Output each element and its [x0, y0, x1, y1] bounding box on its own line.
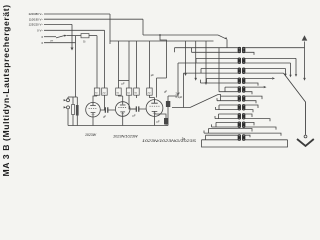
- wire: bottom return bus U bracket: [202, 140, 288, 147]
- resistor R1: [94, 36, 100, 96]
- wire: mains tap 6: [44, 42, 76, 44]
- wire: T3 lower-right lead: [242, 72, 283, 74]
- wire: T6 upper-right lead: [242, 96, 262, 99]
- tap plug arrow x185.5: [184, 41, 187, 76]
- wire: T11 lower-left lead: [202, 139, 241, 141]
- transformer T2 windings: [238, 58, 245, 64]
- wire: T7 lower-right lead: [242, 110, 253, 113]
- wire: T9 upper-right lead: [242, 122, 254, 125]
- wire: bus y35: [143, 34, 218, 36]
- wire: T3 upper-right lead: [242, 68, 285, 70]
- svg-text:u-r: u-r: [50, 39, 53, 43]
- wire: T1 upper-left lead: [175, 48, 241, 53]
- junction dot: [159, 34, 161, 36]
- svg-text:µF: µF: [151, 73, 154, 77]
- wire: tube2 anode: [122, 96, 124, 102]
- wire: row10 link through: [241, 129, 242, 134]
- wire: mains tap 125/220: [44, 23, 72, 25]
- terminal arrow up top right: [302, 35, 308, 40]
- svg-text:2Ω: 2Ω: [148, 92, 151, 94]
- svg-text:50: 50: [95, 92, 98, 94]
- wire: T5 lower-left lead: [219, 91, 241, 93]
- svg-text:µF: µF: [164, 90, 167, 94]
- svg-text:0: 0: [41, 35, 43, 39]
- svg-text:µF: µF: [133, 114, 136, 118]
- resistor R3: [116, 41, 123, 96]
- wire: T5 upper-right lead: [242, 86, 263, 88]
- svg-text:0 V~: 0 V~: [37, 28, 43, 32]
- tube V1 (EL3N): [86, 102, 101, 117]
- svg-text:50: 50: [117, 92, 120, 94]
- wire: switched line to fuse: [67, 35, 82, 37]
- wire: T2 lower-right lead: [242, 62, 290, 64]
- wire: T3 upper-left lead: [201, 69, 241, 74]
- switch S1 blade: [56, 35, 67, 38]
- transformer T5 windings: [238, 87, 245, 93]
- wire: row2 left drop to C3 feed: [168, 63, 178, 96]
- wire: T10 upper-right lead: [242, 129, 252, 132]
- wire: T1 upper-right lead: [242, 47, 304, 49]
- wire: T5 upper-left lead: [225, 87, 241, 92]
- svg-text:50: 50: [135, 92, 138, 94]
- wire: T9 upper-left lead: [216, 122, 241, 127]
- svg-text:2µF: 2µF: [176, 92, 181, 96]
- wire: T6 lower-left lead: [217, 98, 241, 101]
- svg-text:MA 3 B (Multidyn-Lautsprecherg: MA 3 B (Multidyn-Lautsprechergerät): [1, 4, 11, 176]
- svg-text:1023N/1023W: 1023N/1023W: [113, 134, 138, 138]
- wire: T8 upper-right lead: [242, 114, 252, 117]
- transformer T3 windings: [238, 68, 245, 74]
- plug arrow into jack 1: [64, 99, 67, 101]
- wire: bus y41: [110, 40, 214, 42]
- svg-text:1023W: 1023W: [85, 133, 97, 137]
- transformer T6 windings: [238, 96, 245, 102]
- svg-text:µF: µF: [157, 120, 160, 124]
- wire: vertical supply rail x143: [142, 19, 144, 35]
- cathode resistor R6: [72, 97, 75, 126]
- svg-text:110/190 V~: 110/190 V~: [29, 17, 44, 21]
- plug arrow into jack 2: [64, 106, 67, 108]
- wire: vertical to plug terminal: [71, 24, 73, 47]
- wire: T4 lower-right lead: [242, 83, 258, 86]
- wire: long diagonal to ladder: [190, 95, 218, 108]
- tube V3: [146, 100, 163, 117]
- input jack terminals: [67, 97, 78, 126]
- svg-text:Si: Si: [83, 39, 86, 43]
- wire: tube cathode drops: [93, 116, 155, 125]
- wire: T8 lower-right lead: [242, 119, 270, 122]
- capacitor C4: [155, 114, 169, 126]
- svg-text:µF: µF: [103, 115, 106, 119]
- wire: screen feed x160: [151, 35, 167, 98]
- transformer T8 windings: [238, 114, 245, 120]
- wire: T10 lower-left lead: [204, 131, 241, 134]
- wire: T3 lower-left lead: [184, 72, 241, 74]
- capacitor C1: [101, 107, 116, 118]
- transformer T1 windings: [238, 47, 245, 53]
- svg-text:µF: µF: [122, 82, 125, 86]
- wire: big diagonal row3 to earth terminal: [284, 73, 306, 135]
- svg-text:0,1µF: 0,1µF: [176, 95, 183, 99]
- wire: T10 lower-right lead: [242, 133, 281, 136]
- wire: tube3 anode: [154, 98, 156, 100]
- resistor R6 screen: [147, 41, 155, 98]
- wire: T4 upper-left lead: [207, 78, 241, 83]
- wire: T4 upper-right lead: [242, 77, 272, 79]
- terminal arrow down: [71, 48, 74, 51]
- wire: mains tap 4: [44, 29, 105, 31]
- wire: T6 lower-right lead: [242, 101, 256, 104]
- wire: T4 lower-left lead: [201, 80, 241, 83]
- wire: T8 upper-left lead: [219, 114, 241, 119]
- svg-text:1023N/1023NG/1023S: 1023N/1023NG/1023S: [142, 139, 197, 143]
- wire: link R3-R4 risers: [119, 80, 130, 82]
- wire: T7 lower-left lead: [216, 107, 241, 110]
- wire: T1 lower-right lead: [242, 52, 254, 55]
- wire: T11 upper-right lead: [242, 135, 250, 137]
- wire: T6 upper-left lead: [221, 96, 241, 101]
- wire: row2 top drop with plug arrow: [295, 58, 297, 76]
- wire: T2 upper-left lead: [196, 58, 241, 63]
- wire: T9 lower-left lead: [212, 124, 241, 127]
- wire: T11 lower-right lead: [242, 139, 287, 141]
- wire: row3 top drop with plug arrow: [284, 69, 286, 77]
- svg-text:220/380 V~: 220/380 V~: [29, 12, 44, 16]
- wire: T11 upper-left lead: [206, 135, 241, 140]
- wire: mains tap 5 to switch: [44, 36, 56, 38]
- wire: T8 lower-left lead: [215, 116, 241, 119]
- wire: mains tap 220/380: [44, 13, 110, 15]
- wire: row3 left drop: [183, 73, 185, 107]
- tap plug arrow x195.7: [194, 41, 197, 81]
- wire: switch S2 to row1: [226, 40, 228, 48]
- wire: T7 upper-left lead: [219, 105, 241, 110]
- svg-text:2Ω: 2Ω: [103, 92, 106, 94]
- wire: T5 lower-right lead: [242, 92, 252, 95]
- switch S2 blade: [218, 35, 227, 40]
- arrow at right end of row4: [272, 77, 275, 79]
- wire: T2 lower-left lead: [178, 62, 241, 64]
- capacitor C2: [130, 106, 146, 117]
- wire: T9 lower-right lead: [242, 127, 276, 130]
- svg-text:0: 0: [41, 41, 43, 45]
- arrow at right end of row5: [264, 86, 267, 88]
- tap plug arrow x206: [205, 41, 208, 85]
- junction circle bottom right: [304, 135, 307, 138]
- wire: speaker line vertical x304.5: [303, 42, 306, 81]
- wire: diagonal elbow joins row6: [218, 95, 221, 97]
- transformer T4 windings: [238, 78, 245, 84]
- wire: horizontal y107.5: [172, 107, 190, 109]
- wire: T7 upper-right lead: [242, 105, 258, 108]
- wire: row2 bottom drop with plug arrow: [289, 63, 291, 77]
- wire: T10 upper-left lead: [209, 129, 241, 134]
- transformer T11 windings: [238, 135, 245, 141]
- fuse Si: [81, 34, 89, 44]
- svg-text:1Ω: 1Ω: [127, 92, 130, 94]
- resistor R2: [102, 30, 108, 110]
- wire: ground bus: [68, 125, 168, 127]
- wire: vertical from tap 1: [109, 14, 111, 44]
- wire: T1 lower-left lead: [192, 48, 241, 53]
- svg-text:125/220 V~: 125/220 V~: [29, 23, 44, 27]
- transformer T9 windings: [238, 122, 245, 128]
- earth V arrow: [297, 139, 314, 146]
- tube V2: [115, 102, 130, 117]
- wire: input feed vertical x75.5: [75, 36, 77, 97]
- wire: mains tap 110/190: [44, 18, 143, 20]
- wire: fuse to rail: [89, 35, 97, 37]
- capacitor C3 (2uF): [166, 92, 183, 126]
- resistor R5: [134, 41, 140, 98]
- grid resistor dark: [76, 97, 79, 126]
- wire: tube1 anode: [93, 96, 97, 102]
- wire: vertical x219 from row1 top to row5: [218, 48, 220, 92]
- wire: T2 upper-right lead: [242, 57, 296, 59]
- resistor R4: [126, 41, 136, 109]
- transformer T7 windings: [238, 105, 245, 111]
